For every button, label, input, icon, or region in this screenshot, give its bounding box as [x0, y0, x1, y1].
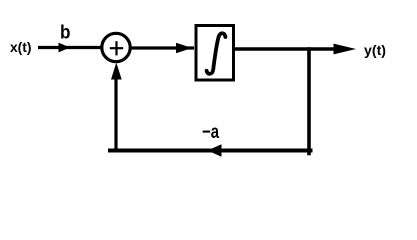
svg-text:y(t): y(t)	[364, 42, 386, 58]
summing junction (adder)	[102, 33, 130, 61]
wire summing junction to integrator	[131, 46, 194, 49]
arrowhead at output y(t)	[334, 44, 357, 55]
wire feedback: left vertical up into summing junction	[114, 76, 117, 151]
integral sign inside block	[207, 33, 226, 74]
wire input x(t) to summing junction	[38, 46, 101, 49]
arrowhead at integrator input	[176, 43, 192, 53]
svg-text:−a: −a	[202, 122, 219, 143]
plus sign in summing junction	[110, 47, 123, 49]
wire feedback: branch down from output node	[307, 49, 311, 154]
arrowhead into summing junction bottom	[111, 63, 122, 80]
wire feedback: bottom horizontal	[110, 149, 311, 153]
svg-text:x(t): x(t)	[10, 39, 32, 55]
arrowhead on input wire	[59, 43, 71, 53]
integrator block U1	[196, 26, 234, 81]
svg-text:b: b	[60, 23, 71, 44]
arrowhead on feedback wire (pointing left)	[208, 144, 222, 156]
wire integrator output to y(t)	[235, 47, 338, 50]
